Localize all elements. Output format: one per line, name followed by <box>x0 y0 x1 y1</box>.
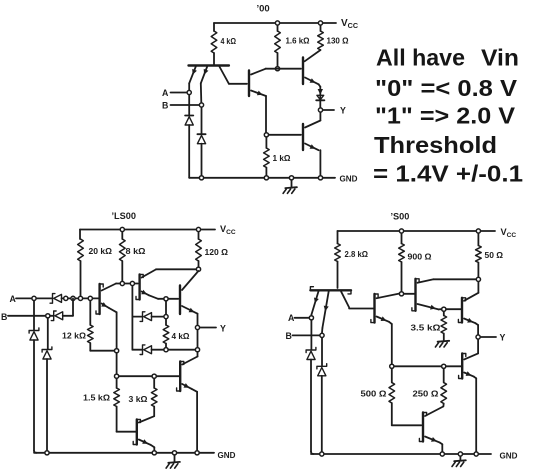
svg-text:VCC: VCC <box>220 224 236 236</box>
node input B <box>320 333 324 337</box>
svg-text:B: B <box>286 331 292 341</box>
svg-text:VCC: VCC <box>501 227 517 239</box>
svg-text:120 Ω: 120 Ω <box>205 247 229 257</box>
node Vcc-130 junction <box>318 21 322 25</box>
svg-text:Y: Y <box>340 105 346 115</box>
node diode A anode <box>64 296 68 300</box>
schottky clamp diode input B <box>42 319 52 451</box>
transistor Q1 'LS00 input <box>96 284 138 349</box>
wire Vcc rail 'S00 <box>338 230 496 232</box>
resistor 900 Ohm <box>399 234 405 291</box>
node diode branch tap <box>130 281 134 285</box>
wire squaring rail <box>395 365 442 367</box>
transistor Q3 output pull-up <box>303 58 320 108</box>
wire Q4 base <box>447 308 463 310</box>
resistor 120 Ohm <box>196 232 202 266</box>
svg-text:12 kΩ: 12 kΩ <box>62 331 86 341</box>
transistor Q2 phase splitter <box>249 69 301 132</box>
svg-text:500 Ω: 500 Ω <box>361 389 387 399</box>
schottky clamp diode input B <box>317 338 327 451</box>
schottky diode input B <box>51 311 62 321</box>
resistor 3.5 kOhm to ground <box>435 312 449 347</box>
node gnd symbol tap <box>458 452 462 456</box>
wire GND rail '00 <box>189 177 335 179</box>
node 3k top <box>152 374 156 378</box>
wire input A <box>171 92 187 94</box>
svg-text:VCC: VCC <box>341 18 358 30</box>
transistor Q4 'LS00 lower output <box>177 352 198 450</box>
node input B clamp tap <box>46 314 50 318</box>
node gnd Q5 <box>474 452 478 456</box>
node gnd 1k <box>264 176 268 180</box>
wire emitter node down <box>116 353 118 373</box>
wire output Y <box>481 336 496 338</box>
node Q3 base <box>164 297 168 301</box>
node input A clamp tap <box>32 296 36 300</box>
transistor Q3 'LS00 upper output <box>180 271 199 325</box>
transistor Q6 'S00 squaring <box>419 407 443 452</box>
wire GND rail 'LS00 <box>34 452 214 454</box>
resistor 250 Ohm <box>441 369 447 406</box>
wire <box>37 297 53 299</box>
wire Q4 base rail <box>119 375 179 377</box>
node 12k tap <box>88 296 92 300</box>
node Vcc-50 junction <box>476 229 480 233</box>
svg-text:"0" =< 0.8 V: "0" =< 0.8 V <box>375 75 517 101</box>
svg-text:Vin: Vin <box>481 45 519 71</box>
svg-text:’00: ’00 <box>257 4 270 15</box>
schottky diode D6 <box>132 345 163 355</box>
wire Q5 base <box>446 365 462 367</box>
schottky clamp diode input A <box>29 301 39 453</box>
resistor 3 kOhm <box>151 379 157 416</box>
wire input network <box>62 297 100 299</box>
node 8k-Q1 collector <box>120 281 124 285</box>
node gnd output <box>318 176 322 180</box>
node 1k junction <box>264 133 268 137</box>
transistor Q3 'S00 upper driver <box>412 279 476 311</box>
node input A <box>187 90 191 94</box>
node input B <box>199 103 203 107</box>
node gnd symbol tap <box>172 451 176 455</box>
schottky diode D5 <box>132 312 163 322</box>
svg-text:GND: GND <box>340 174 358 184</box>
transistor Q2 'LS00 driver <box>136 269 196 299</box>
svg-text:= 1.4V +/-0.1: = 1.4V +/-0.1 <box>373 160 523 186</box>
resistor 8 kOhm <box>120 232 126 281</box>
node 250 top <box>442 364 446 368</box>
diode output level shift <box>316 89 324 100</box>
node 120-collector junction <box>196 267 200 271</box>
node 20k <box>78 296 82 300</box>
node output Y 'LS00 <box>195 325 199 329</box>
svg-text:3.5 kΩ: 3.5 kΩ <box>411 323 441 333</box>
node gnd B-clamp <box>320 452 324 456</box>
resistor 4 kOhm <box>211 23 217 66</box>
node gnd B-clamp <box>199 176 203 180</box>
transistor Q1 'S00 multi-emitter input <box>310 287 374 333</box>
svg-text:B: B <box>1 312 7 322</box>
node gnd symbol tap <box>289 176 293 180</box>
resistor 1 kOhm <box>264 138 270 176</box>
transistor Q4 'S00 output darlington <box>458 282 478 334</box>
svg-text:1 kΩ: 1 kΩ <box>273 153 291 163</box>
transistor Q4 output pull-down <box>303 113 320 176</box>
wire diode branch <box>131 286 133 350</box>
node B join <box>71 296 75 300</box>
wire input B <box>293 334 320 336</box>
node output Y <box>318 108 322 112</box>
wire Vcc rail '00 <box>214 22 336 24</box>
svg-text:GND: GND <box>218 450 236 460</box>
node gnd Q4 <box>195 451 199 455</box>
node gnd Q5 <box>152 451 156 455</box>
svg-text:’LS00: ’LS00 <box>112 211 137 221</box>
wire output Y <box>200 327 216 329</box>
svg-text:4 kΩ: 4 kΩ <box>221 36 237 46</box>
resistor 1.5 kOhm <box>114 379 136 432</box>
resistor 130 Ohm <box>305 26 324 62</box>
svg-text:4 kΩ: 4 kΩ <box>172 331 190 341</box>
svg-text:1.5 kΩ: 1.5 kΩ <box>83 393 110 403</box>
node diode-4k top <box>164 315 168 319</box>
node input A <box>309 316 313 320</box>
ground <box>166 456 180 469</box>
clamp diode input A <box>185 95 193 178</box>
node 50-collector junction <box>476 277 480 281</box>
svg-text:8 kΩ: 8 kΩ <box>126 246 146 256</box>
node lower output collector <box>195 348 199 352</box>
node Vcc-1.6k junction <box>275 21 279 25</box>
schottky clamp diode input A <box>306 321 316 455</box>
node 1.5k top <box>115 374 119 378</box>
ground <box>452 457 466 467</box>
svg-text:Y: Y <box>220 324 226 334</box>
resistor 12 kOhm <box>88 301 115 351</box>
svg-text:All have: All have <box>376 45 465 71</box>
transistor Q1 multi-emitter input <box>189 66 248 103</box>
svg-text:Threshold: Threshold <box>374 132 497 158</box>
resistor 1.6 kOhm <box>275 26 281 66</box>
svg-text:3 kΩ: 3 kΩ <box>129 394 148 404</box>
svg-text:"1" => 2.0 V: "1" => 2.0 V <box>375 102 515 128</box>
node Vcc-8k junction <box>120 227 124 231</box>
svg-text:’S00: ’S00 <box>391 212 410 222</box>
node Q4 base / 3.5k <box>442 307 446 311</box>
resistor 2.8 kOhm <box>335 231 341 288</box>
svg-text:900 Ω: 900 Ω <box>408 252 432 262</box>
transistor Q5 'S00 lower output <box>459 354 477 452</box>
wire to output branch <box>169 349 195 351</box>
wire Y to lower node <box>197 330 199 347</box>
node output Y 'S00 <box>476 335 480 339</box>
svg-text:B: B <box>162 101 168 111</box>
wire input A <box>16 297 31 299</box>
svg-text:2.8 kΩ: 2.8 kΩ <box>345 249 369 259</box>
resistor 500 Ohm <box>389 369 421 425</box>
node gnd Q6 <box>440 452 444 456</box>
wire <box>165 302 167 315</box>
resistor 50 Ohm <box>476 234 482 277</box>
wire output Y <box>323 109 334 111</box>
node gnd B-clamp <box>45 451 49 455</box>
node Vcc-120 junction <box>196 227 200 231</box>
transistor Q5 'LS00 squaring <box>133 416 154 450</box>
wire B to junction <box>63 298 73 315</box>
wire Vcc rail 'LS00 <box>80 229 215 231</box>
wire Q3 base <box>404 293 415 295</box>
wire input B <box>171 104 199 106</box>
svg-text:20 kΩ: 20 kΩ <box>89 246 113 256</box>
node phase-splitter collector <box>275 67 279 71</box>
node Vcc-900 junction <box>399 229 403 233</box>
ground <box>283 181 297 194</box>
wire input B <box>8 315 45 317</box>
wire GND rail 'S00 <box>311 453 491 455</box>
svg-text:A: A <box>162 88 169 98</box>
resistor 4 kOhm <box>163 319 169 347</box>
svg-text:GND: GND <box>500 450 518 460</box>
svg-text:1.6 kΩ: 1.6 kΩ <box>286 36 310 46</box>
wire Q4 base <box>269 134 301 136</box>
svg-text:Y: Y <box>500 333 506 343</box>
svg-text:130 Ω: 130 Ω <box>327 36 349 46</box>
node 900-Q2 collector <box>399 292 403 296</box>
clamp diode input B <box>197 108 205 175</box>
wire Y to Q5 collector <box>464 340 478 360</box>
svg-text:250 Ω: 250 Ω <box>413 389 439 399</box>
node diode-4k bottom <box>164 348 168 352</box>
wire <box>51 315 54 317</box>
node Q1 emitter junction <box>115 349 119 353</box>
wire input A <box>295 317 309 319</box>
transistor Q2 'S00 phase splitter <box>371 294 399 364</box>
resistor 20 kOhm <box>78 230 84 296</box>
svg-text:50 Ω: 50 Ω <box>485 250 504 260</box>
schottky diode input A <box>50 294 61 304</box>
node 500 top <box>390 364 394 368</box>
